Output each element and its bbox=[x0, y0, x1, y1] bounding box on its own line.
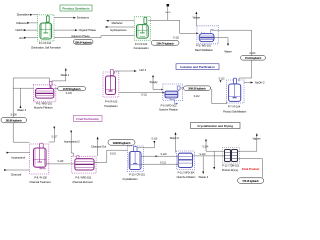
reactor P-8 dashed selection border bbox=[30, 144, 49, 174]
wire P-5 output to P-4 bbox=[54, 88, 60, 90]
svg-text:2178.58 kg/batch: 2178.58 kg/batch bbox=[63, 88, 81, 91]
svg-text:P-3 / WD-101: P-3 / WD-101 bbox=[196, 44, 211, 48]
wire crystallizer out 1 to P-11 bbox=[141, 153, 178, 157]
input stream S-124 arrow bbox=[202, 140, 224, 152]
filter P-5 body nutsche bbox=[34, 81, 54, 100]
oval label 1366.64 kg/batch bbox=[74, 39, 94, 44]
reactor P-4 dashed selection border bbox=[103, 72, 119, 97]
svg-text:Diketene: Diketene bbox=[16, 21, 27, 25]
reactor P-4 vessel precipitation bbox=[106, 69, 116, 94]
input stream S-115 arrow bbox=[218, 77, 225, 82]
svg-text:1366.64 kg/batch: 1366.64 kg/batch bbox=[74, 41, 92, 44]
svg-text:Batch Distillation: Batch Distillation bbox=[195, 48, 213, 52]
input stream Isopropanol bbox=[7, 152, 30, 160]
reactor P-2 vessel R-102 bbox=[137, 17, 149, 38]
input stream NaOH 2 bbox=[244, 81, 265, 85]
input stream Wash 3 bbox=[170, 132, 179, 152]
svg-text:Crystallization: Crystallization bbox=[123, 177, 139, 181]
wire P-8 to P-9 bbox=[46, 163, 75, 165]
input stream Charcoal bbox=[4, 169, 29, 177]
input stream HCl bbox=[19, 36, 37, 40]
output stream Waste 2 down bbox=[214, 38, 232, 54]
dryer P-12 dashed selection border bbox=[223, 148, 240, 164]
oval label 151.84 kg/batch bbox=[241, 56, 266, 61]
filter P-9 dashed selection border bbox=[72, 156, 96, 173]
svg-text:Product Solubilization: Product Solubilization bbox=[223, 109, 247, 113]
svg-text:P-4 / R-103: P-4 / R-103 bbox=[105, 100, 118, 104]
input stream Hydroquinone bbox=[105, 26, 135, 32]
section title Crystallization and Drying bbox=[191, 123, 241, 129]
wire S-112 from P-6 fittings into P-7 bbox=[180, 87, 226, 104]
filter P-6 dashed selection border bbox=[163, 84, 183, 101]
input stream S-116 arrow bbox=[137, 138, 158, 148]
svg-text:Product Synthesis: Product Synthesis bbox=[62, 6, 89, 10]
wire P-3 top output S-113 down right side bbox=[212, 30, 252, 81]
svg-text:Wash 3: Wash 3 bbox=[170, 136, 179, 140]
output stream S-123 down bbox=[213, 151, 215, 169]
svg-text:Condensation: Condensation bbox=[134, 46, 150, 50]
svg-text:Charcoal Treatment: Charcoal Treatment bbox=[29, 180, 51, 184]
reactor P-1 dashed selection border bbox=[37, 15, 54, 41]
svg-text:Nutsche Filtration: Nutsche Filtration bbox=[34, 106, 53, 110]
svg-text:Charcoal: Charcoal bbox=[11, 173, 22, 177]
svg-text:P-12 / TDR-101: P-12 / TDR-101 bbox=[222, 163, 240, 167]
wire R-102 to condenser P-3 bbox=[148, 20, 199, 34]
svg-text:Wash 1: Wash 1 bbox=[61, 73, 70, 77]
svg-text:151.84 kg/batch: 151.84 kg/batch bbox=[245, 57, 262, 60]
svg-text:S-118: S-118 bbox=[57, 160, 64, 163]
svg-text:NaOH 2: NaOH 2 bbox=[255, 81, 265, 85]
input stream NaOCl bbox=[16, 28, 38, 32]
svg-text:Charcoal Out: Charcoal Out bbox=[91, 145, 107, 149]
svg-text:Nutsche Filtration: Nutsche Filtration bbox=[159, 107, 178, 111]
svg-text:P-7 / R-104: P-7 / R-104 bbox=[228, 105, 241, 109]
oval label 2938.88 kg/batch bbox=[108, 140, 135, 146]
svg-text:S-108: S-108 bbox=[10, 114, 17, 117]
svg-text:Isolation and Purification: Isolation and Purification bbox=[180, 65, 215, 69]
dryer P-12 body tray dryer bbox=[225, 150, 238, 162]
svg-text:P-1 / R-101: P-1 / R-101 bbox=[39, 41, 52, 45]
svg-text:NaOH: NaOH bbox=[165, 12, 171, 14]
svg-text:Final Product: Final Product bbox=[242, 167, 259, 171]
input stream Diketene bbox=[16, 21, 37, 25]
filter P-11 dashed selection border bbox=[177, 151, 195, 170]
svg-text:Supply: Supply bbox=[150, 80, 159, 84]
oval label 2696.38 kg/batch bbox=[184, 86, 211, 91]
output stream Emissions bbox=[54, 16, 90, 20]
wire P-9 output to crystallizer P-10 bbox=[94, 150, 128, 162]
svg-text:NaOCl: NaOCl bbox=[16, 28, 24, 32]
svg-text:Final Purification: Final Purification bbox=[76, 117, 99, 121]
input stream Dianisidine bbox=[17, 13, 38, 17]
svg-text:Waste: Waste bbox=[193, 15, 201, 19]
filter P-6 body nutsche bbox=[165, 86, 180, 105]
svg-text:P-11 / NFD-104: P-11 / NFD-104 bbox=[178, 171, 195, 175]
output stream Waste 3 down bbox=[199, 156, 209, 179]
input stream Isopropanol 2 bbox=[64, 131, 80, 157]
filter P-5 dashed selection border bbox=[34, 85, 56, 102]
svg-text:S-116: S-116 bbox=[151, 138, 158, 141]
section title Product Synthesis bbox=[60, 5, 92, 11]
svg-text:2264.74 kg/batch: 2264.74 kg/batch bbox=[156, 42, 174, 45]
reactor P-8 vessel charcoal treatment bbox=[34, 143, 47, 169]
svg-text:2938.88 kg/batch: 2938.88 kg/batch bbox=[113, 142, 131, 145]
svg-text:Isopropanol: Isopropanol bbox=[11, 155, 25, 159]
reactor P-10 dashed selection border bbox=[128, 146, 144, 172]
oval label 285.88 kg/batch bbox=[1, 117, 27, 122]
reactor P-7 dashed selection border bbox=[226, 80, 244, 103]
svg-text:P-9 / NFD-103: P-9 / NFD-103 bbox=[75, 176, 91, 180]
svg-text:Dianisidine: Dianisidine bbox=[17, 13, 30, 17]
svg-text:Nutsche Filtration: Nutsche Filtration bbox=[177, 175, 196, 179]
svg-text:Water 2: Water 2 bbox=[17, 108, 27, 112]
output stream HCl 2 bbox=[115, 68, 147, 74]
svg-text:Methanol: Methanol bbox=[112, 21, 123, 25]
svg-text:S-112: S-112 bbox=[194, 95, 201, 98]
wire Aqueous Phase to R-102 bbox=[54, 34, 134, 38]
oval label 2178.58 kg/batch bbox=[58, 86, 86, 91]
svg-text:Crystallization and Drying: Crystallization and Drying bbox=[197, 124, 233, 128]
svg-text:S-117: S-117 bbox=[51, 135, 58, 138]
svg-text:HCl 2: HCl 2 bbox=[140, 68, 147, 72]
svg-text:P-2 / R-102: P-2 / R-102 bbox=[135, 42, 148, 46]
svg-text:Precipitation: Precipitation bbox=[104, 104, 118, 108]
svg-text:P-5 / NFD-101: P-5 / NFD-101 bbox=[36, 101, 52, 105]
svg-text:Charcoal Removal: Charcoal Removal bbox=[72, 180, 92, 184]
input stream Water 2 bbox=[13, 88, 34, 112]
reactor P-1 vessel R-101 bbox=[40, 15, 52, 39]
svg-text:P-8 / R-105: P-8 / R-105 bbox=[34, 176, 47, 180]
wire P-4 to P-6 bbox=[119, 92, 165, 94]
svg-text:285.88 kg/batch: 285.88 kg/batch bbox=[6, 120, 23, 123]
svg-text:S-120: S-120 bbox=[160, 153, 167, 156]
svg-text:HCl: HCl bbox=[19, 36, 24, 40]
svg-text:Waste 3: Waste 3 bbox=[199, 175, 209, 179]
condenser P-3 dashed selection border bbox=[197, 26, 218, 44]
wire crystallizer out 2 to P-11 bbox=[141, 161, 178, 164]
reactor P-10 vessel crystallizer bbox=[129, 147, 141, 170]
svg-text:576.16 kg/batch: 576.16 kg/batch bbox=[242, 180, 259, 183]
reactor P-7 vessel solubilization bbox=[229, 78, 241, 101]
oval label 576.16 kg/batch bbox=[238, 178, 264, 184]
svg-text:S-124: S-124 bbox=[202, 145, 209, 148]
svg-text:S-122: S-122 bbox=[199, 153, 206, 156]
oval label 2264.74 kg/batch bbox=[151, 40, 179, 45]
wire feed line into P-5 top bbox=[13, 78, 49, 84]
wire S-108 vertical to charcoal vessel bbox=[13, 78, 29, 142]
filter P-9 body charcoal removal bbox=[75, 156, 94, 170]
svg-text:Aqueous Phase: Aqueous Phase bbox=[71, 34, 90, 38]
input stream Wash 1 bbox=[52, 68, 70, 84]
filter P-11 body nutsche bbox=[178, 153, 192, 167]
output stream Waste up bbox=[193, 12, 201, 26]
svg-text:S-115: S-115 bbox=[218, 77, 225, 80]
svg-text:Isopropanol 2: Isopropanol 2 bbox=[64, 140, 80, 144]
svg-text:P-6 / NFD-102: P-6 / NFD-102 bbox=[161, 103, 177, 107]
wire P-11 output to dryer P-12 bbox=[193, 155, 224, 157]
section title Isolation and Purification bbox=[176, 64, 219, 70]
wire final product stream bbox=[238, 159, 263, 178]
svg-text:S-113: S-113 bbox=[249, 52, 256, 55]
svg-text:P-10 / CR-101: P-10 / CR-101 bbox=[129, 173, 145, 177]
input stream Supply bbox=[150, 76, 164, 91]
svg-text:S-121: S-121 bbox=[160, 161, 167, 164]
svg-text:Chlorination, Salt Formation: Chlorination, Salt Formation bbox=[31, 45, 62, 49]
input stream NaOH bbox=[165, 4, 171, 20]
input stream Methanol bbox=[106, 20, 134, 25]
input stream S-117 arrow bbox=[49, 127, 58, 142]
svg-text:Vapors: Vapors bbox=[252, 136, 261, 140]
svg-text:Emissions: Emissions bbox=[77, 16, 90, 20]
svg-text:S-109: S-109 bbox=[66, 92, 73, 95]
section title Final Purification bbox=[74, 116, 103, 122]
output stream Vapors up bbox=[238, 133, 262, 151]
output stream Organic Phase bbox=[54, 28, 96, 32]
output stream Charcoal Out up bbox=[91, 137, 107, 156]
svg-text:S-111: S-111 bbox=[141, 93, 147, 96]
svg-text:S-110: S-110 bbox=[173, 37, 180, 40]
condenser P-3 body bbox=[199, 30, 214, 42]
svg-text:S-119: S-119 bbox=[110, 153, 117, 156]
svg-text:2696.38 kg/batch: 2696.38 kg/batch bbox=[188, 88, 206, 91]
svg-text:Waste: Waste bbox=[224, 49, 232, 53]
reactor P-2 dashed selection border bbox=[134, 17, 150, 41]
svg-text:Hydroquinone: Hydroquinone bbox=[110, 28, 127, 32]
svg-text:Organic Phase: Organic Phase bbox=[79, 28, 97, 32]
svg-text:Product Drying: Product Drying bbox=[222, 168, 239, 172]
